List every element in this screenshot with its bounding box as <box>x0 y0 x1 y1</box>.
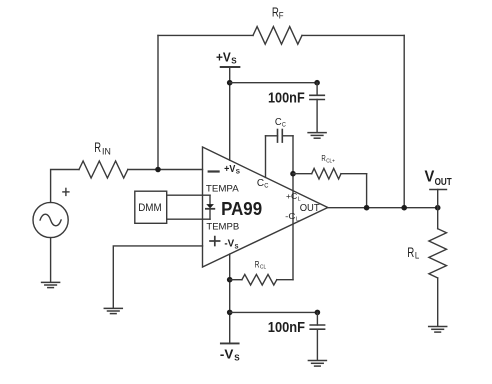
wire source bottom to ground <box>50 238 52 282</box>
wire RIN to op-amp inverting input <box>128 169 203 171</box>
svg-text:C: C <box>282 122 286 129</box>
wire RCL+ down to output <box>366 174 368 208</box>
node RCL junction <box>227 277 233 283</box>
svg-text:PA99: PA99 <box>221 198 262 219</box>
wire RF feedback loop left vertical <box>157 35 159 169</box>
svg-text:C: C <box>264 183 268 190</box>
svg-text:TEMPB: TEMPB <box>206 222 239 232</box>
op-amp U1 PA99 triangle <box>203 147 328 267</box>
svg-text:+C: +C <box>286 191 297 201</box>
ground (RL) <box>429 327 447 333</box>
ground (top bypass cap) <box>308 133 326 139</box>
svg-text:R: R <box>94 140 101 155</box>
svg-text:CL: CL <box>260 265 267 271</box>
wire -VS junction to bottom bypass cap <box>230 311 318 313</box>
capacitor C1 100nF top <box>316 83 318 96</box>
node bottom bypass cap junction <box>315 310 321 316</box>
wire CL vertical through op-amp <box>292 136 294 280</box>
svg-text:+V: +V <box>216 50 231 65</box>
resistor RF <box>253 27 302 45</box>
wire +VS down to op-amp <box>229 67 231 160</box>
svg-text:DMM: DMM <box>138 202 162 214</box>
svg-text:L: L <box>298 196 301 202</box>
svg-text:S: S <box>236 169 241 176</box>
node output/VOUT <box>435 205 441 211</box>
ground (non-inverting input) <box>104 308 122 313</box>
resistor RIN <box>79 161 128 178</box>
svg-text:R: R <box>407 245 414 260</box>
svg-text:S: S <box>234 353 240 363</box>
source V1 sine generator <box>33 202 68 237</box>
svg-text:TEMPA: TEMPA <box>206 183 240 193</box>
wire RF top left segment <box>158 34 253 36</box>
node output/feedback <box>401 205 407 211</box>
svg-text:S: S <box>235 243 240 250</box>
wire non-inverting input to ground <box>113 246 202 308</box>
svg-text:F: F <box>279 10 284 20</box>
VOUT terminal bar <box>430 189 446 191</box>
svg-text:-V: -V <box>224 239 234 250</box>
wire DMM to TEMPA <box>167 194 210 196</box>
resistor RL <box>437 208 439 229</box>
node CL top junction <box>290 171 296 177</box>
svg-text:-C: -C <box>285 211 295 221</box>
node +VS junction <box>227 80 233 86</box>
resistor RCL <box>230 279 242 281</box>
ground (source) <box>42 282 60 287</box>
wire source top to RIN <box>51 170 79 203</box>
wire -VS pin down <box>229 254 231 343</box>
node output/RCL+ <box>364 205 370 211</box>
svg-text:R: R <box>255 259 260 269</box>
svg-text:100nF: 100nF <box>268 319 305 336</box>
svg-text:L: L <box>296 216 299 222</box>
power +VS terminal bar <box>221 66 240 68</box>
wire DMM to TEMPB <box>167 218 210 220</box>
svg-text:OUT: OUT <box>300 203 320 214</box>
wire output <box>328 207 438 209</box>
svg-text:IN: IN <box>102 146 111 157</box>
svg-text:C: C <box>275 117 282 128</box>
wire RF top right segment <box>302 34 404 36</box>
node top bypass cap junction <box>314 80 320 86</box>
capacitor C2 100nF bottom <box>316 312 318 325</box>
diode temperature sensor <box>209 195 211 204</box>
svg-text:V: V <box>425 169 435 186</box>
op-amp inverting input marker <box>209 170 219 172</box>
svg-text:S: S <box>231 55 237 65</box>
svg-text:CL+: CL+ <box>326 159 335 165</box>
source polarity plus <box>63 191 69 193</box>
ground (bottom bypass cap) <box>308 361 326 367</box>
power -VS terminal bar <box>221 342 239 344</box>
wire RF right vertical down to output <box>403 35 405 207</box>
svg-text:R: R <box>321 153 325 163</box>
DMM box <box>135 191 167 223</box>
op-amp non-inverting input marker <box>210 240 220 242</box>
svg-text:OUT: OUT <box>435 176 453 188</box>
wire +VS junction to bypass cap <box>230 82 317 84</box>
node input/feedback junction <box>155 167 161 173</box>
resistor RCL+ <box>293 173 312 175</box>
node -VS junction <box>227 310 233 316</box>
svg-text:100nF: 100nF <box>268 89 305 106</box>
capacitor CC compensation loop <box>265 136 267 178</box>
svg-text:-V: -V <box>220 347 234 362</box>
svg-text:L: L <box>415 250 419 260</box>
svg-text:+V: +V <box>224 163 235 175</box>
